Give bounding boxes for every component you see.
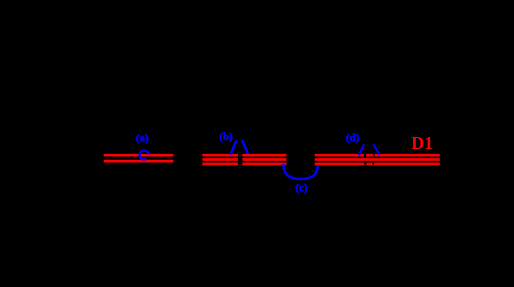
node b: left tick	[231, 140, 237, 154]
node d: right tick	[373, 144, 379, 154]
svg-text:D1: D1	[411, 133, 433, 153]
node c: arc	[284, 164, 318, 179]
svg-text:(c): (c)	[295, 182, 308, 194]
wire: double line segment bottom	[104, 160, 174, 163]
node a: curl mark	[140, 151, 149, 160]
wire: triple segment C top line with break	[315, 154, 440, 157]
svg-text:(d): (d)	[346, 132, 360, 144]
node b: right tick	[242, 140, 248, 154]
wire: triple segment C middle line continuous	[315, 158, 440, 161]
svg-text:(b): (b)	[219, 131, 233, 143]
wire: triple segment B	[242, 155, 286, 164]
node d: left tick	[359, 144, 364, 155]
svg-text:(a): (a)	[136, 133, 149, 145]
wire: triple segment A	[202, 155, 238, 164]
wire: double line segment top	[104, 154, 174, 157]
wire: triple segment C bottom line with break	[315, 163, 440, 166]
